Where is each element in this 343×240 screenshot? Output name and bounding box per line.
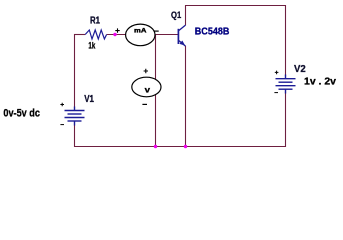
wire right vertical top (V2 plus lead) [285,5,287,76]
voltmeter plus sign [144,69,148,73]
resistor R1 zigzag [85,30,106,39]
battery V2 plate 4 short [279,88,293,90]
svg-text:v: v [145,85,151,94]
battery V1 plate 1 long [65,110,85,112]
node bottom junction voltmeter branch [154,145,157,148]
battery V2 plate 1 long [276,78,296,80]
node bottom junction emitter branch [184,145,187,148]
voltmeter VM1 body [132,77,161,97]
voltmeter minus sign [142,103,147,105]
transistor Q1 collector stroke [178,25,185,31]
battery V1 top stub [74,107,76,111]
wire voltmeter branch vertical [155,35,157,147]
battery V2 plus sign [275,71,279,75]
svg-text:Q1: Q1 [171,10,182,21]
battery V1 bottom stub [74,121,76,126]
wire R1 to ammeter [107,34,178,36]
battery V1 plate 4 short [68,120,82,122]
battery V2 bottom stub [285,89,287,93]
svg-text:1k: 1k [88,41,95,51]
battery V2 minus sign [274,92,278,94]
svg-text:R1: R1 [90,16,100,27]
battery V1 plate 3 long [65,117,85,119]
battery V2 top stub [285,75,287,79]
svg-text:BC548B: BC548B [195,27,230,38]
battery V1 minus sign [60,124,64,126]
battery V1 plate 2 short [68,113,82,115]
svg-text:mA: mA [134,29,147,35]
svg-text:V1: V1 [84,94,94,105]
svg-text:1v . 2v: 1v . 2v [304,77,336,88]
transistor Q1 emitter arrow [180,41,186,46]
svg-text:0v-5v dc: 0v-5v dc [3,108,40,120]
wire left vertical bottom (V1 minus lead) [74,125,76,147]
wire emitter vertical [185,46,187,147]
battery V2 plate 3 long [276,85,296,87]
transistor Q1 base bar [177,29,179,44]
ammeter minus sign [154,30,159,32]
node between R1 and ammeter [113,33,116,36]
ammeter AM1 body [126,24,155,46]
wire collector vertical [185,5,187,25]
wire top-left horizontal to R1 [74,34,85,36]
wire right vertical bottom (V2 minus lead) [285,93,287,148]
wire top rail [185,5,286,7]
wire bottom rail [74,146,286,148]
svg-text:V2: V2 [294,64,306,75]
transistor Q1 emitter stroke [178,40,185,46]
ammeter plus sign [115,28,119,32]
battery V1 plus sign [60,103,64,107]
wire left vertical top (V1 plus lead) [74,34,76,108]
battery V2 plate 2 short [279,81,293,83]
